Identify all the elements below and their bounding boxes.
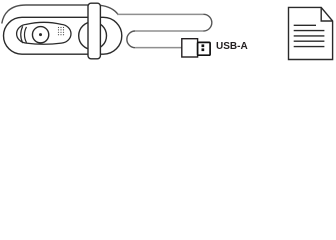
wire cable descent from clip xyxy=(100,5,118,14)
clip ring bulge xyxy=(79,22,107,50)
inner face plate xyxy=(17,22,71,44)
speaker arc outer xyxy=(21,26,23,43)
document text line 5 xyxy=(294,46,325,48)
wire cable loop right cap xyxy=(204,14,212,31)
USB contact pin 1 xyxy=(202,44,205,47)
lens pupil xyxy=(39,33,42,36)
lens U1 xyxy=(32,27,48,43)
label USB-A xyxy=(216,42,248,52)
document folded corner xyxy=(321,7,332,21)
document icon page xyxy=(289,7,333,59)
wire cable loop left U cap xyxy=(127,31,135,48)
USB contact pin 2 xyxy=(202,48,205,51)
document text line 3 xyxy=(294,35,325,37)
document text line 4 xyxy=(294,40,325,42)
USB plug body xyxy=(182,39,198,57)
wire cable loop straight runs xyxy=(117,14,204,47)
mic dot grid 3x4 xyxy=(58,27,64,35)
document text line 1 xyxy=(294,24,316,26)
speaker arc inner xyxy=(24,27,26,43)
wire cable over top of webcam xyxy=(2,5,89,24)
webcam body xyxy=(4,17,122,54)
USB metal shield xyxy=(198,42,211,55)
mount clip xyxy=(88,3,100,59)
document text line 2 xyxy=(294,30,325,32)
